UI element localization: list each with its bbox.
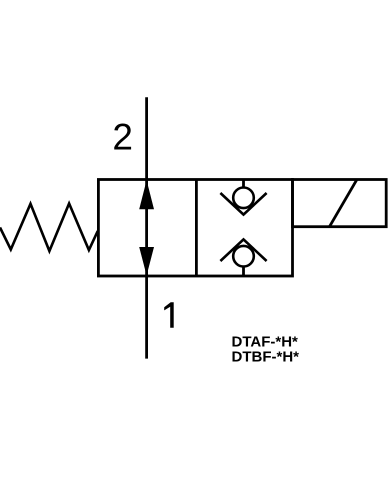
check valve CV1 seat	[220, 193, 266, 215]
arrow up	[139, 180, 154, 209]
svg-text:DTBF-*H*: DTBF-*H*	[232, 349, 300, 366]
check valve CV1 ball	[233, 188, 254, 209]
node 1 label	[164, 302, 174, 328]
svg-text:2: 2	[112, 117, 133, 158]
solenoid coil outline	[293, 180, 387, 227]
solenoid diagonal	[330, 180, 357, 227]
check valve CV1 stub wire	[242, 180, 245, 189]
check valve CV2 ball	[233, 246, 254, 267]
valve body V1 outline	[98, 180, 292, 277]
check valve CV2 seat	[220, 239, 266, 261]
spring	[0, 204, 98, 252]
check valve CV2 stub wire	[242, 266, 245, 276]
wire port 2 to port 1 vertical line	[145, 97, 148, 358]
valve body divider	[195, 180, 198, 277]
arrow down	[139, 247, 154, 276]
